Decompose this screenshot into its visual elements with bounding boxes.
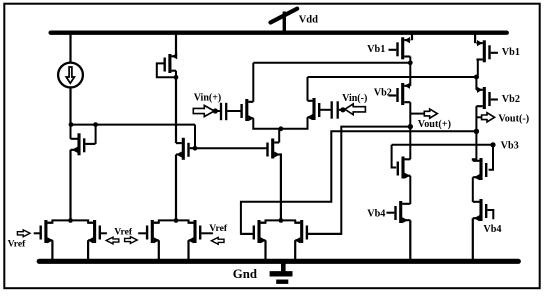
wire node B to M10 source: [475, 77, 477, 90]
transistor M4 (diode-connected NMOS): [71, 133, 96, 155]
wire M2 gate to Cc2: [319, 109, 331, 111]
wire M1 source to tail: [253, 118, 281, 129]
Vref arrow 2 left: [106, 237, 119, 244]
wire Vin+ node to Cc1: [216, 110, 220, 112]
Vdd symbol stem: [283, 12, 286, 32]
node Vin(-): [340, 107, 345, 112]
wire M6 drain stub: [175, 71, 177, 78]
node Vin(+): [213, 108, 218, 113]
Vout(-) stub and arrow: [476, 116, 481, 118]
M14 gate hook: [487, 210, 493, 219]
wire Vdd rail to M7 source: [411, 33, 413, 41]
wire M1 drain up to wire-A: [252, 63, 254, 102]
pair top node: [279, 218, 284, 223]
Vin(+) input arrow: [193, 105, 214, 116]
transistor ML1 (NMOS mirror pair1 left): [41, 220, 53, 243]
current source I1: [58, 63, 83, 88]
ML3 gate lead to CMFB corner: [241, 233, 254, 235]
pair top node: [174, 218, 179, 223]
wire M13 source to ground rail: [409, 220, 411, 261]
ground symbol bar 2: [276, 280, 288, 284]
wire M2 source to tail: [281, 117, 308, 129]
wire current source to node: [69, 87, 71, 124]
svg-text:Vdd: Vdd: [299, 15, 318, 26]
bias wire node to M5 gate node (horizontal): [96, 124, 195, 126]
node tail: [279, 126, 284, 131]
Vb3 bias wire: [392, 144, 493, 146]
wire Vdd rail to current source: [69, 33, 71, 63]
wire M12 source to M14 drain: [472, 177, 474, 202]
ground symbol stem: [281, 263, 286, 271]
node M5 gate: [193, 146, 198, 151]
M6 drain node: [174, 75, 179, 80]
wire M3 drain to tail node: [278, 129, 280, 143]
wire M14 source to ground rail: [472, 218, 474, 261]
svg-text:Vb2: Vb2: [374, 87, 392, 98]
transistor M3 (tail NMOS): [268, 139, 280, 159]
transistor M14 (NMOS, Vb4 right): [473, 199, 486, 221]
transistor M5 (NMOS): [176, 138, 194, 160]
pair top wire: [47, 220, 93, 222]
Vout(+) node: [408, 124, 413, 129]
svg-text:Vref: Vref: [209, 223, 228, 234]
wire M6 drain to M5 drain: [175, 77, 177, 143]
wire M10 drain to Vout- node: [475, 106, 477, 131]
Vref arrow 1: [17, 230, 30, 237]
coupling capacitor Cc1 (Vin+): [220, 103, 222, 120]
Vin(-) input arrow: [345, 104, 366, 115]
transistor M1 (input NMOS, Vin+): [242, 99, 254, 121]
Vout(+) stub and arrow: [410, 113, 424, 115]
Vref arrow 3: [211, 237, 224, 244]
pair source wires to ground rail: [158, 240, 160, 261]
MR1 gate lead: [100, 232, 107, 234]
pair top wire: [261, 220, 301, 222]
M11 diode loop to Vb3 wire: [392, 145, 397, 168]
svg-text:Vb3: Vb3: [501, 140, 519, 151]
transistor M6 (diode-connected PMOS): [165, 53, 178, 73]
wire-A M1 drain to left cascode node: [253, 62, 410, 64]
wire Vout+ to pair3 right gate (vertical A): [308, 127, 410, 234]
wire M4 source down to pair1: [69, 150, 71, 221]
transistor ML2 (NMOS mirror pair2 left): [147, 220, 159, 243]
wire Vout- to pair3 left gate (vertical B): [241, 131, 477, 234]
wire M3 source down to pair3: [279, 155, 281, 221]
bias wire drop to M5 gate node: [194, 125, 196, 149]
wire M5 source down to pair2: [175, 155, 177, 221]
M6 gate loop (diode connection): [157, 63, 176, 77]
Vdd supply rail: [51, 31, 507, 35]
wire M8 drain to node-B: [477, 60, 479, 79]
svg-text:Vout(-): Vout(-): [498, 113, 529, 124]
Vout(-) node: [474, 129, 479, 134]
wire Vout+ node down to M11 drain: [409, 127, 411, 160]
wire Vout- node down to M12 drain: [473, 131, 477, 161]
wire M5 gate wire to tail gate M3: [195, 147, 267, 149]
wire M4 gate riser: [95, 125, 97, 144]
wire Vdd rail to M8 source: [474, 33, 476, 43]
svg-text:Vb4: Vb4: [367, 208, 385, 219]
ML2 gate lead: [138, 232, 146, 234]
Vref arrow 2 right: [125, 237, 138, 244]
ML1 gate lead: [34, 232, 40, 234]
node Vb3: [490, 142, 495, 147]
svg-text:Vb1: Vb1: [367, 44, 385, 55]
wire Vb3 node down to M12 gate: [489, 145, 493, 170]
pair source wires to ground rail: [51, 240, 53, 261]
svg-text:Vb2: Vb2: [502, 94, 520, 105]
node A (left cascode): [408, 60, 413, 65]
transistor M2 (input NMOS, Vin-): [307, 98, 319, 120]
wire M11 source to M13 drain: [409, 176, 411, 204]
svg-text:Vref: Vref: [8, 238, 27, 249]
wire node A to M9 source: [409, 63, 411, 86]
transistor M8 (PMOS cascode, Vb1 right): [476, 40, 498, 62]
transistor M13 (NMOS, Vb4 left): [387, 201, 411, 223]
node at current source output: [69, 122, 74, 127]
Vdd symbol bar: [271, 9, 298, 23]
svg-text:Vout(+): Vout(+): [418, 119, 451, 130]
wire M4 drain to node: [70, 125, 72, 139]
wire M7 drain to node-A: [409, 57, 411, 63]
pair top node: [68, 218, 73, 223]
transistor MR3 (NMOS mirror pair3 right): [295, 220, 307, 243]
transistor MR2 (NMOS mirror pair2 right): [188, 220, 200, 243]
svg-text:Gnd: Gnd: [233, 267, 257, 281]
wire-B M2 drain to right cascode node: [308, 76, 477, 78]
MR2 gate lead: [201, 232, 213, 234]
ground rail: [39, 259, 518, 264]
svg-text:Vin(+): Vin(+): [194, 92, 222, 103]
wire M9 drain to Vout+ node: [409, 102, 411, 126]
transistor ML3 (NMOS mirror pair3 left): [254, 220, 266, 243]
wire Cc2 to Vin- node: [339, 109, 342, 111]
svg-text:Vb1: Vb1: [502, 47, 520, 58]
wire Vdd rail to M6 source: [175, 33, 177, 57]
transistor M12 (NMOS cascode): [473, 158, 486, 180]
svg-text:Vb4: Vb4: [483, 224, 501, 235]
pair top wire: [154, 220, 194, 222]
coupling capacitor Cc2 (Vin-): [331, 101, 333, 118]
transistor MR1 (NMOS mirror pair1 right): [88, 220, 100, 243]
MR3 gate lead to CMFB vertical A: [308, 233, 341, 235]
ground symbol bar 1: [270, 271, 293, 276]
wire node to M4 gate riser: [71, 124, 96, 126]
transistor M7 (PMOS cascode, Vb1 left): [389, 37, 411, 59]
wire M2 drain up to wire-B: [307, 77, 309, 101]
transistor M9 (PMOS, Vb2 left): [389, 83, 411, 105]
pair source wires to ground rail: [264, 240, 266, 261]
node at M4 gate riser: [93, 122, 98, 127]
transistor M10 (PMOS, Vb2 right): [476, 87, 498, 109]
wire Cc1 to M1 gate: [227, 110, 241, 112]
transistor M11 (diode NMOS): [398, 157, 411, 179]
node B (right cascode): [474, 75, 479, 80]
svg-text:Vin(-): Vin(-): [342, 93, 367, 104]
